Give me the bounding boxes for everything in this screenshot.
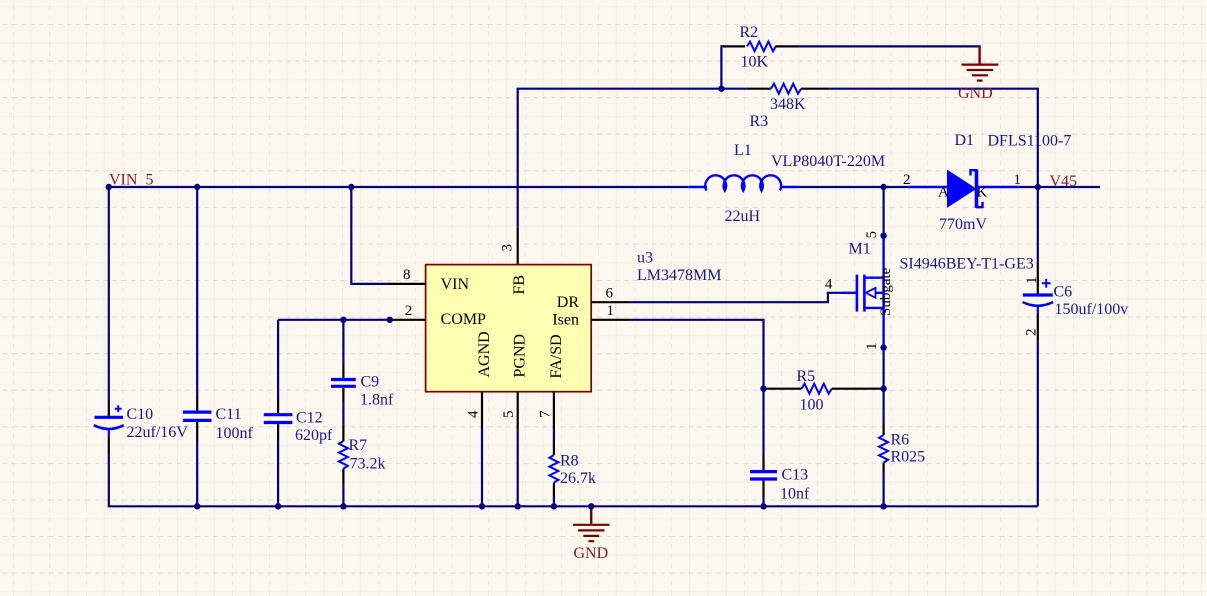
wire main bus L1 left pin (blue): [689, 186, 707, 188]
resistor R2: [723, 42, 798, 52]
junction R5 left C13 node: [760, 386, 766, 392]
svg-text:2: 2: [1024, 329, 1040, 337]
wire R2 branch up from FB net: [721, 46, 724, 88]
svg-text:SI4946BEY-T1-GE3: SI4946BEY-T1-GE3: [900, 255, 1034, 272]
resistor R6: [879, 424, 888, 472]
wire main bus D1 cathode to V45 end: [1019, 186, 1100, 188]
wire VIN vertical to C10: [108, 187, 110, 401]
wire R8 bottom to bus: [553, 496, 555, 506]
capacitor C10: [94, 401, 124, 454]
junction bus C12 bottom: [275, 503, 281, 509]
svg-text:Isen: Isen: [552, 311, 579, 328]
svg-text:2: 2: [903, 172, 911, 188]
junction R5 right M1 source node: [880, 386, 886, 392]
svg-text:COMP: COMP: [441, 311, 486, 328]
pin 2 COMP stub: [388, 319, 425, 321]
capacitor C9: [331, 364, 356, 402]
diode D1: [908, 170, 1019, 208]
svg-text:DFLS1100-7: DFLS1100-7: [988, 133, 1072, 150]
junction bus R6 bottom: [880, 503, 886, 509]
wire COMP net horizontal: [278, 319, 390, 321]
svg-text:150uf/100v: 150uf/100v: [1055, 301, 1129, 318]
svg-text:R3: R3: [750, 113, 769, 130]
pin 4 AGND stub: [481, 392, 483, 429]
svg-text:K: K: [977, 185, 988, 201]
inductor L1: [705, 175, 781, 190]
wire C11 branch bottom: [196, 441, 198, 506]
svg-text:100nf: 100nf: [216, 425, 254, 442]
svg-text:100: 100: [800, 397, 824, 414]
svg-text:VLP8040T-220M: VLP8040T-220M: [771, 153, 885, 170]
wire M1 drain node down from main bus: [882, 187, 884, 236]
wire C12 branch bottom: [277, 440, 279, 506]
junction bus C11 bottom: [194, 503, 200, 509]
wire AGND pin4 to bus: [481, 429, 483, 506]
junction bus GND stem: [588, 503, 594, 509]
wire C12 branch top: [277, 320, 279, 400]
svg-text:M1: M1: [849, 241, 871, 258]
svg-text:10nf: 10nf: [780, 486, 810, 503]
svg-text:GND: GND: [574, 545, 609, 562]
svg-text:VIN: VIN: [441, 276, 470, 293]
svg-text:1.8nf: 1.8nf: [360, 392, 394, 409]
junction M1 pin5: [880, 233, 886, 239]
transistor M1: [842, 236, 884, 348]
resistor R5: [764, 384, 884, 394]
svg-text:7: 7: [537, 410, 553, 418]
pin 7 FA/SD stub: [553, 392, 555, 429]
svg-text:V45: V45: [1050, 173, 1078, 190]
svg-text:L1: L1: [734, 142, 752, 159]
pin 5 PGND stub: [517, 392, 519, 429]
svg-text:C13: C13: [782, 467, 809, 484]
junction pin8 branch: [348, 184, 354, 190]
svg-text:R025: R025: [891, 449, 926, 466]
wire R3 right to corner and down to V45 node: [830, 89, 1038, 187]
wire main bus between L1 and D1: [799, 186, 909, 188]
svg-text:10K: 10K: [741, 53, 769, 70]
wire C11 branch top: [196, 187, 198, 396]
svg-text:22uH: 22uH: [725, 208, 761, 225]
pin 6 DR stub: [591, 301, 628, 303]
svg-text:26.7k: 26.7k: [560, 470, 596, 487]
svg-text:22uf/16V: 22uf/16V: [127, 424, 189, 441]
ground GND bottom: [573, 506, 610, 541]
wire C6 bottom to bottom bus: [1037, 340, 1039, 506]
svg-text:R6: R6: [891, 432, 910, 449]
capacitor C13: [750, 453, 777, 497]
svg-text:770mV: 770mV: [939, 216, 987, 233]
wire PGND pin5 to bus: [517, 429, 519, 506]
svg-text:Subgate: Subgate: [878, 267, 894, 316]
svg-text:FB: FB: [511, 275, 528, 295]
svg-text:C10: C10: [127, 406, 154, 423]
junction C11 top: [194, 184, 200, 190]
junction M1 pin1: [880, 344, 886, 350]
svg-text:DR: DR: [557, 294, 580, 311]
svg-text:4: 4: [825, 277, 833, 293]
svg-text:C12: C12: [296, 410, 323, 427]
capacitor C11: [183, 396, 212, 441]
wire R2 right to top GND: [798, 45, 980, 47]
svg-text:1: 1: [1014, 172, 1022, 188]
svg-text:R5: R5: [797, 368, 816, 385]
resistor R7: [339, 426, 348, 484]
svg-text:73.2k: 73.2k: [350, 455, 386, 472]
junction R2 to FB net: [718, 86, 724, 92]
svg-text:D1: D1: [955, 132, 975, 149]
wire C9 branch top: [342, 320, 344, 364]
wire M1 source to R5 node: [882, 348, 884, 389]
wire FB net vertical pin3 to top corner and across R3 to right drop: [518, 89, 747, 228]
wire C13 branch top: [762, 389, 764, 453]
IC U3 LM3478MM body: [426, 265, 592, 392]
svg-text:1: 1: [607, 303, 615, 319]
junction bus PGND: [515, 503, 521, 509]
svg-text:5: 5: [864, 231, 880, 239]
wire VIN pin8 branch: [351, 187, 390, 284]
svg-text:R7: R7: [349, 437, 368, 454]
svg-text:C9: C9: [361, 374, 380, 391]
svg-text:8: 8: [403, 267, 411, 283]
junction bus R7 bottom: [340, 503, 346, 509]
junction bus C13 bottom: [760, 503, 766, 509]
pin 3 FB stub: [517, 228, 519, 265]
junction M1 drain branch: [880, 184, 886, 190]
svg-text:620pf: 620pf: [295, 427, 333, 444]
wire C10 bottom to bottom bus corner: [109, 454, 1038, 507]
junction C9 top on COMP net: [340, 317, 346, 323]
wire Isen net from pin1 down to R5: [629, 320, 764, 389]
svg-text:R8: R8: [560, 453, 579, 470]
wire R5 node to R6 top: [882, 389, 884, 424]
junction V45 node: [1035, 184, 1041, 190]
wire R7 bottom to bus: [342, 484, 344, 506]
svg-text:VIN 5: VIN 5: [109, 172, 153, 189]
wire main bus L1 right pin (blue): [780, 186, 798, 188]
svg-text:LM3478MM: LM3478MM: [637, 267, 721, 284]
svg-text:1: 1: [864, 343, 880, 351]
junction VIN corner: [106, 184, 112, 190]
svg-text:FA/SD: FA/SD: [548, 334, 565, 378]
svg-text:5: 5: [501, 411, 517, 419]
svg-text:A: A: [938, 185, 949, 201]
wire C9 to R7 mid segment: [342, 402, 344, 426]
wire C13 branch bottom: [762, 497, 764, 506]
svg-text:PGND: PGND: [512, 334, 529, 378]
svg-text:C11: C11: [216, 406, 242, 423]
wire DR net from pin6 with jog to M1 gate: [629, 293, 843, 302]
svg-text:2: 2: [405, 303, 413, 319]
svg-text:C6: C6: [1054, 284, 1073, 301]
svg-text:6: 6: [606, 286, 614, 302]
pin 1 Isen stub: [591, 319, 628, 321]
wire R6 bottom to bus: [882, 472, 884, 506]
junction bus FA/SD R8: [551, 503, 557, 509]
resistor R3: [747, 84, 830, 94]
svg-text:GND: GND: [958, 85, 993, 102]
wire main VIN bus left segment: [109, 186, 689, 188]
svg-text:u3: u3: [637, 250, 653, 267]
svg-text:3: 3: [500, 244, 516, 252]
junction COMP pin end: [387, 317, 393, 323]
capacitor C6: [1023, 263, 1054, 340]
svg-text:AGND: AGND: [476, 331, 493, 377]
svg-text:348K: 348K: [770, 96, 806, 113]
svg-text:1: 1: [1024, 277, 1040, 285]
junction bus AGND: [479, 503, 485, 509]
svg-text:4: 4: [466, 410, 482, 418]
wire FA/SD pin7 to R8: [553, 429, 555, 440]
ground GND top: [961, 45, 998, 80]
wire V45 node down to C6: [1037, 187, 1039, 263]
capacitor C12: [264, 400, 293, 441]
svg-text:R2: R2: [740, 24, 759, 41]
pin 8 VIN stub: [388, 283, 425, 285]
resistor R8: [549, 440, 558, 496]
